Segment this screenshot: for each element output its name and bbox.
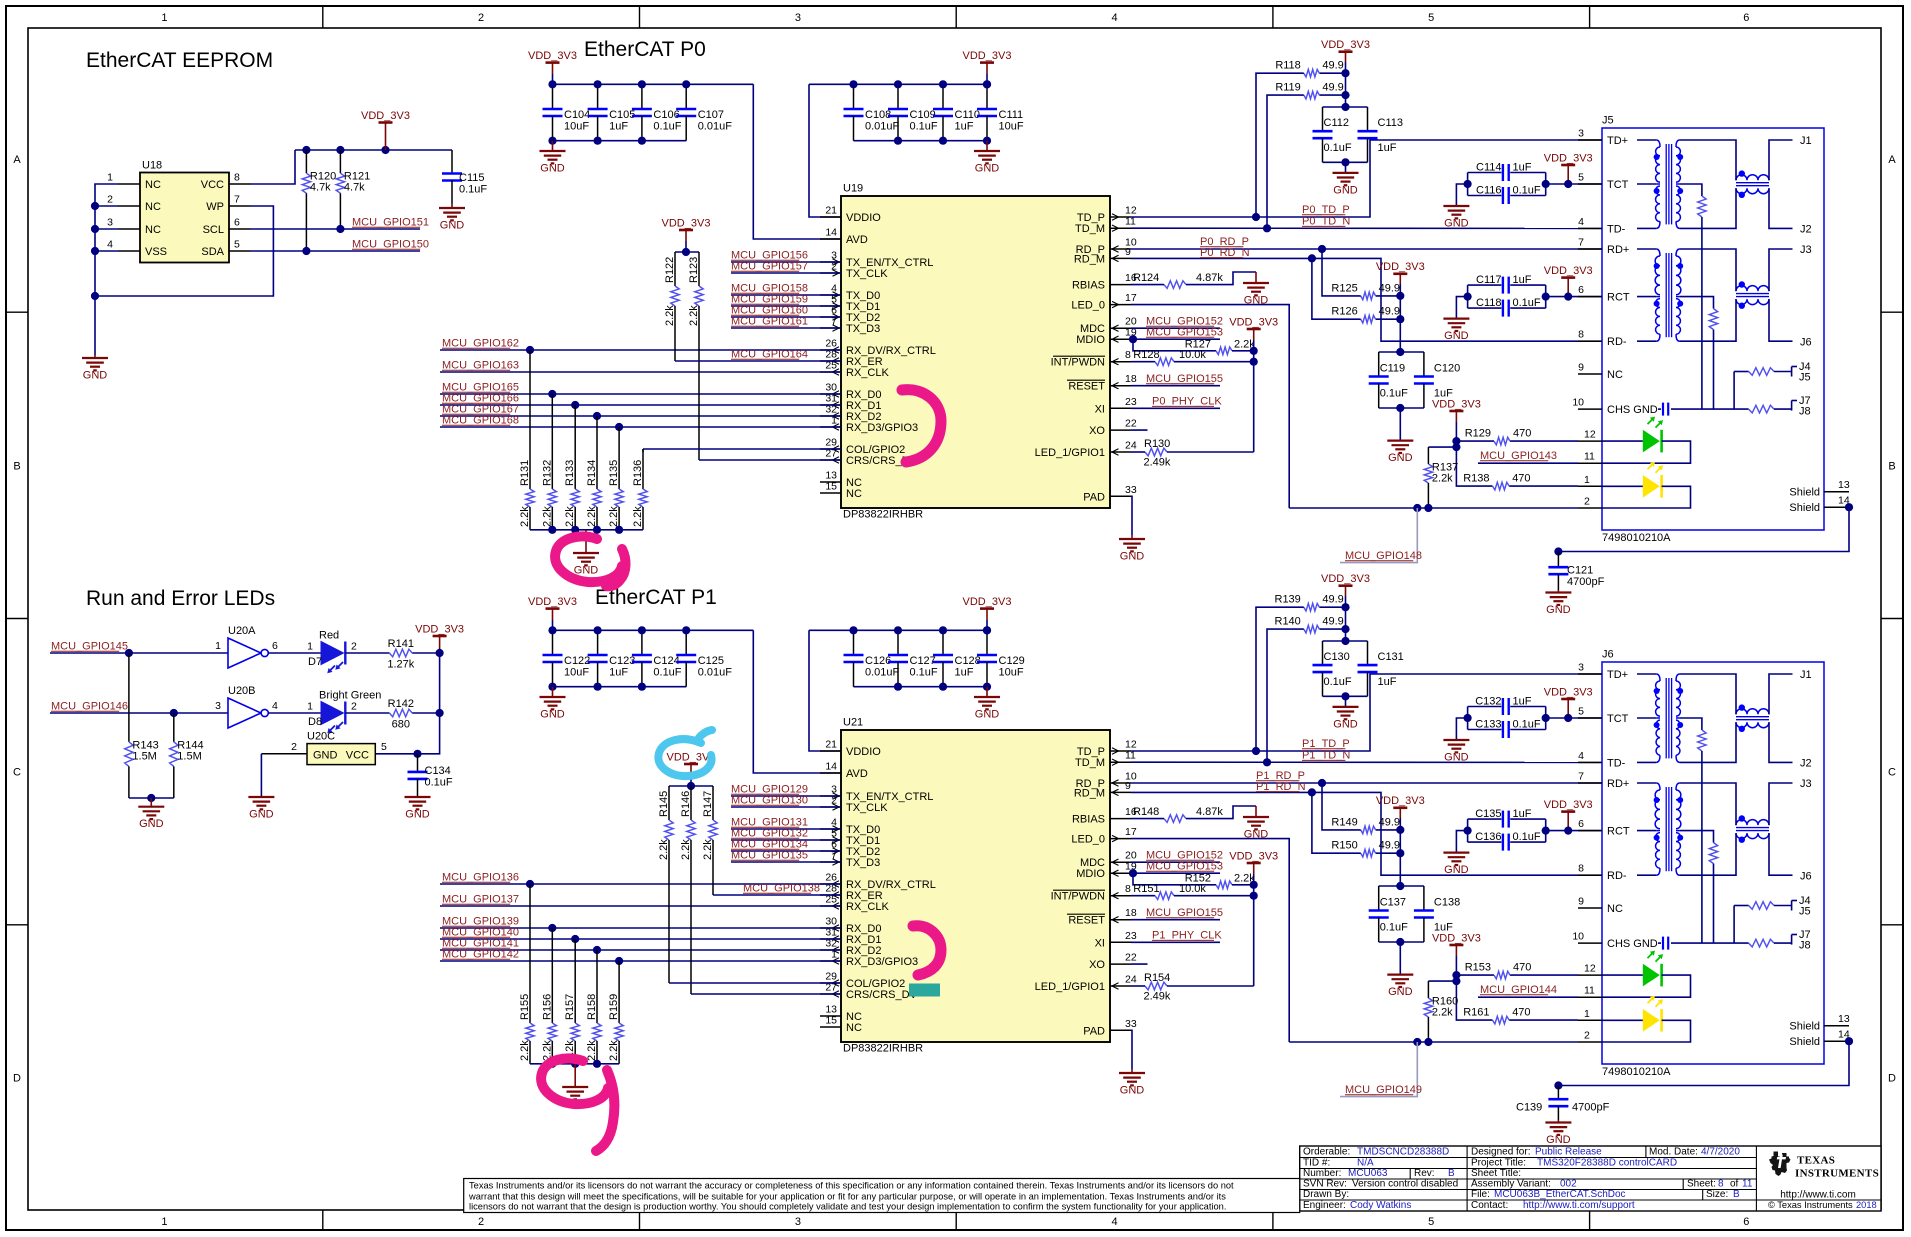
net label MCU_GPIO146 [51,701,128,713]
U18 pin 8 VCC stub [229,183,251,185]
svg-text:VSS: VSS [145,246,167,258]
svg-text:R124: R124 [1133,272,1159,284]
svg-text:49.9: 49.9 [1379,816,1400,828]
U21 pin 19 MDIO stub [1110,872,1131,874]
svg-text:GND: GND [1120,551,1145,563]
svg-text:VCC: VCC [346,749,369,761]
wire transformer J6 RX term down [1713,864,1715,944]
svg-text:6: 6 [1578,284,1584,296]
wire C137/C138 P1 gnd stem [1399,942,1401,975]
svg-text:R159: R159 [608,994,620,1020]
svg-text:GND: GND [83,370,108,382]
svg-text:470: 470 [1512,1007,1530,1019]
resistor R132 [541,394,556,530]
title block col line B [1755,1146,1757,1211]
wire transformer J5 RX out top [1769,249,1793,291]
junction C112/C113 P0 top [1341,103,1349,111]
svg-text:C118: C118 [1476,297,1501,309]
net label MCU_GPIO155 P0 [1146,373,1223,385]
junction C124 top [638,626,646,634]
PHY IC U19 body [841,196,1110,508]
junction TCT P0 left [1464,180,1472,188]
wire XI net P1 [1131,941,1220,943]
svg-text:C116: C116 [1476,184,1501,196]
svg-text:MCU_GPIO138: MCU_GPIO138 [743,883,820,895]
resistor R125 [1331,282,1400,299]
power VDD_3V3 RCT P1 [1544,799,1593,831]
wire J7 stub P1 [1792,934,1797,936]
svg-text:C120: C120 [1434,363,1460,375]
svg-text:P1_PHY_CLK: P1_PHY_CLK [1152,930,1222,942]
svg-text:0.1uF: 0.1uF [425,777,453,789]
resistor R156 [541,928,556,1064]
ground RBIAS P1 [1243,806,1269,841]
junction RD_M R126 P0 [1308,254,1316,262]
wire transformer J5 TX term down [1701,217,1703,409]
wire transformer J5 RX out bottom [1769,299,1793,341]
wire J5 internal seg [1637,340,1656,342]
U19 pin 29 COL/GPIO2 stub [820,448,841,450]
svg-text:4700pF: 4700pF [1567,576,1605,588]
resistor R148 [1164,815,1186,823]
wire RCT P0 loopR [1545,285,1547,308]
svg-text:R157: R157 [564,994,576,1020]
U19 pin RX_CLK arrow [833,369,840,375]
wire R127 out P1 [1232,884,1254,886]
svg-text:http://www.ti.com/support: http://www.ti.com/support [1523,1200,1635,1211]
junction C137/C138 P1 bottom [1396,938,1404,946]
resistor transformer J6 RX termination [1709,843,1717,864]
power VDD_3V3 MDIO P0 [1229,316,1278,340]
resistor R123 [688,252,703,460]
U19 pin LED_1/GPIO1 arrow [1112,449,1119,455]
svg-text:2.2k: 2.2k [608,506,620,527]
svg-text:10.0k: 10.0k [1179,883,1206,895]
wire MCU_GPIO161 net [731,327,841,329]
resistor transformer J5 TX termination [1698,196,1706,217]
svg-text:PAD: PAD [1083,1025,1105,1037]
svg-text:2.49k: 2.49k [1144,457,1171,469]
U19 pin 10 RD_P stub [1110,248,1131,250]
net label MCU_GPIO131 [731,817,808,829]
wire TCT P0 branch2 [1510,195,1546,197]
wire TCT P1 out [1546,717,1602,719]
svg-text:49.9: 49.9 [1322,82,1343,94]
svg-text:7498010210A: 7498010210A [1602,1066,1671,1078]
svg-text:12: 12 [1584,429,1596,441]
svg-text:MCU_GPIO135: MCU_GPIO135 [731,850,808,862]
svg-text:P1_TD_P: P1_TD_P [1302,738,1350,750]
svg-text:11: 11 [1584,451,1595,463]
svg-text:24: 24 [1125,974,1137,986]
wire J4J5 bracket P1 [1774,905,1792,907]
svg-text:AVD: AVD [846,234,868,246]
svg-text:1: 1 [307,641,313,653]
transformer J5 TX choke [1736,170,1769,198]
wire RD_M net P1 [1131,792,1602,875]
junction RCT P0 right [1542,293,1550,301]
svg-text:D8: D8 [308,716,322,728]
wire transformer J5 TX out bottom [1769,188,1793,228]
wire MCU_GPIO145 net [50,652,228,654]
svg-text:R161: R161 [1463,1007,1489,1019]
wire J5 internal seg [1637,227,1656,229]
resistor J4J5 P1 [1749,902,1774,910]
power VDD_3V3 R125 P1 [1376,795,1425,818]
capacitor C120 [1414,352,1434,408]
wire TD_P net P1 [1131,674,1602,751]
wire RCT P0 gnd jog [1456,297,1467,319]
svg-text:680: 680 [392,719,410,731]
svg-text:J2: J2 [1800,758,1812,770]
svg-text:Shield: Shield [1789,1021,1820,1033]
wire LED_1 net P0 [1131,451,1145,453]
U21 pin 26 RX_DV/RX_CTRL stub [820,883,841,885]
wire CRS net P0 [699,459,841,461]
wire pullup rail P1 [669,785,713,787]
svg-text:TX_D3: TX_D3 [846,857,880,869]
svg-text:LED_0: LED_0 [1071,300,1105,312]
U19 pin 15 NC stub [820,492,841,494]
junction R129 vdd P1 [1452,971,1460,979]
LED J5 yellow [1643,462,1663,498]
J6 pin 10 underline [1578,942,1602,944]
svg-text:VDD_3V3: VDD_3V3 [963,596,1012,608]
wire MCU_GPIO158 net [731,294,841,296]
junction C111 bottom [983,137,991,145]
svg-text:RCT: RCT [1607,292,1630,304]
U19 pin MDC arrow [1112,325,1119,331]
svg-text:C111: C111 [999,109,1024,121]
wire pullup stem P1 [690,775,692,786]
junction C123 bottom [594,683,602,691]
ground C119/C120 P0 [1387,441,1413,465]
svg-text:9: 9 [1125,246,1131,258]
capacitor C132 [1503,698,1509,715]
net label MCU_GPIO160 [731,305,808,317]
junction C121 P1 [1554,1081,1562,1089]
svg-text:MCU_GPIO151: MCU_GPIO151 [352,217,429,229]
U19 pin RESET arrow [1112,383,1119,389]
junction NC pin3 [91,225,99,233]
junction MCU_GPIO165 pulldown [548,390,556,398]
svg-text:TD+: TD+ [1607,135,1628,147]
resistor R146 [680,786,695,994]
resistor R139 [1275,594,1346,611]
wire XI net P0 [1131,407,1220,409]
disclaimer box [464,1179,1300,1213]
net label P0_TD_N [1302,216,1350,228]
svg-text:C135: C135 [1475,808,1501,820]
svg-text:18: 18 [1125,373,1137,385]
wire J6 internal seg tct [1637,830,1656,832]
wire RCT P1 branch2 [1510,841,1546,843]
wire CHS GND 2 P0 [1671,408,1749,410]
svg-text:4.87k: 4.87k [1196,272,1223,284]
svg-text:10uF: 10uF [564,121,589,133]
wire LED J5 green anode [1602,440,1643,442]
svg-text:VDDIO: VDDIO [846,746,881,758]
wire transformer J6 TX sec bottom [1680,722,1736,762]
wire TD_P net P0 [1131,140,1602,217]
svg-text:XI: XI [1095,937,1105,949]
junction RCT P1 right [1542,827,1550,835]
junction pulldown rail P1 [571,1060,579,1068]
wire RCT P1 loopL [1467,819,1469,842]
J5 pin 10 underline [1578,408,1602,410]
frame tick column 2 [639,6,641,1230]
svg-text:2.2k: 2.2k [564,506,576,527]
net label MCU_GPIO155 P1 [1146,907,1223,919]
svg-text:P0_TD_N: P0_TD_N [1302,216,1350,228]
U19 pin 18 RESET stub [1110,385,1131,387]
annotation pink hook P1 [913,926,941,975]
wire transformer J6 RX sec top [1680,783,1736,825]
svg-text:8: 8 [1578,329,1584,341]
svg-text:0.01uF: 0.01uF [698,121,733,133]
svg-text:14: 14 [825,227,837,239]
resistor R152 [1216,881,1232,889]
svg-text:MCU_GPIO149: MCU_GPIO149 [1345,1084,1422,1096]
wire MDIO net P0 [1131,338,1220,340]
wire RCT P0 branch2 [1510,307,1546,309]
resistor R126 [1331,306,1400,323]
svg-text:13: 13 [1838,479,1850,491]
svg-text:3: 3 [215,700,221,712]
svg-text:12: 12 [1125,739,1137,751]
svg-text:CHS GND: CHS GND [1607,938,1658,950]
junction C124 bottom [638,683,646,691]
junction RCT P1 vddd [1564,827,1572,835]
junction TCT P1 vddd [1564,714,1572,722]
junction RCT P1 left [1464,827,1472,835]
svg-text:RCT: RCT [1607,826,1630,838]
wire R128 out P1 [1174,895,1254,897]
wire R128 out P0 [1174,361,1254,363]
wire transformer J6 TX out bottom [1769,722,1793,762]
transformer J6 TX [1654,674,1684,762]
svg-text:TMDSCNCD28388D: TMDSCNCD28388D [1357,1147,1449,1158]
svg-text:1.5M: 1.5M [132,750,156,762]
svg-text:3: 3 [795,1216,801,1228]
wire INT net P1 [1131,895,1155,897]
resistor R137 [1424,447,1458,508]
wire C115 top [451,149,453,151]
svg-text:0.1uF: 0.1uF [1513,184,1541,196]
wire TCT P1 loopL [1467,707,1469,730]
U21 pin RX_D1 arrow [833,936,840,942]
U21 pin 17 LED_0 stub [1110,838,1131,840]
capacitor CHS P1 [1663,937,1668,950]
svg-text:49.9: 49.9 [1379,306,1400,318]
svg-text:RD+: RD+ [1607,244,1629,256]
svg-text:VDD_3V3: VDD_3V3 [963,50,1012,62]
svg-text:MCU_GPIO142: MCU_GPIO142 [442,949,519,961]
wire MCU_GPIO135 net [731,861,841,863]
svg-text:470: 470 [1512,473,1530,485]
capacitor C116 [1503,187,1509,204]
wire LED J6 yellow anode [1602,1019,1643,1021]
U21 pin LED_0 arrow [1112,835,1119,841]
U19 pin 3 TX_EN/TX_CTRL stub [820,261,841,263]
junction capbank2 left [849,626,857,634]
resistor J7J8 P0 [1749,405,1774,413]
svg-text:D: D [1888,1072,1896,1084]
wire MDC net P0 [1131,327,1220,329]
svg-text:C133: C133 [1475,718,1501,730]
svg-text:C137: C137 [1380,897,1406,909]
U21 pin TX_D1 arrow [833,837,840,843]
U19 pin 31 RX_D1 stub [820,404,841,406]
junction capbank1 vdd P1 [548,626,556,634]
svg-text:4: 4 [1112,12,1118,24]
svg-text:R128: R128 [1133,349,1159,361]
wire MCU_GPIO144 net [1478,996,1578,998]
svg-text:1uF: 1uF [609,667,628,679]
svg-text:2.2k: 2.2k [1432,1007,1453,1019]
junction C129 bottom [983,683,991,691]
svg-text:VDD_3V3: VDD_3V3 [1229,850,1278,862]
svg-text:Contact:: Contact: [1471,1200,1508,1211]
svg-text:MCU_GPIO155: MCU_GPIO155 [1146,373,1223,385]
capacitor C115 [442,150,487,204]
junction R120 top [302,146,310,154]
svg-text:J1: J1 [1800,669,1812,681]
svg-text:C132: C132 [1475,695,1501,707]
wire RBIAS gnd P0 [1186,272,1256,285]
junction gray net P1 [1413,1038,1421,1046]
title block sub size [1702,1190,1704,1201]
wire R137 top P1 [1428,980,1456,982]
U19 pin 21 VDDIO stub [820,216,841,218]
U19 pin TX_EN/TX_CTRL arrow [833,259,840,265]
svg-text:23: 23 [1125,930,1137,942]
svg-text:VDD_3V3: VDD_3V3 [1376,795,1425,807]
power VDD_3V3 capbank1 P1 [528,596,577,620]
junction C128 bottom [939,683,947,691]
net label MCU_GPIO138 [743,883,820,895]
svg-text:NC: NC [846,1022,862,1034]
wire TCT P1 loopR [1545,707,1547,730]
svg-text:GND: GND [975,163,1000,175]
svg-text:R138: R138 [1463,473,1489,485]
svg-text:4.87k: 4.87k [1196,806,1223,818]
svg-text:INT/PWDN: INT/PWDN [1051,357,1105,369]
U18 pin 5 SDA stub [229,250,251,252]
svg-text:J6: J6 [1602,649,1614,661]
wire J7J8 bracket v P1 [1791,935,1793,945]
resistor R129 [1456,428,1578,445]
U19 pin 8 INT/PWDN stub [1110,361,1131,363]
J6 pin 12 stub [1578,974,1602,976]
svg-text:TX_D3: TX_D3 [846,323,880,335]
net label MCU_GPIO135 [731,850,808,862]
junction R125 vdd P0 [1396,292,1404,300]
wire MCU_GPIO129 net [731,795,841,797]
IC U20C body [307,744,375,765]
ground C137/C138 P1 [1387,975,1413,999]
annotation teal highlight COL/GPIO2 [909,984,940,997]
title block col line A [1466,1146,1468,1211]
junction R126 vdd P0 [1396,315,1404,323]
svg-text:C134: C134 [425,765,451,777]
ground C115 [439,204,465,232]
ground C121 P0 [1545,590,1571,616]
svg-text:2: 2 [1584,496,1590,508]
frame tick column 5 [1589,6,1591,1230]
net label MCU_GPIO130 [731,795,808,807]
svg-text:7: 7 [1578,237,1584,249]
junction C105 top [594,80,602,88]
svg-text:U19: U19 [843,183,863,195]
svg-text:EtherCAT P0: EtherCAT P0 [584,38,706,61]
svg-text:2: 2 [1584,1030,1590,1042]
J6 pin 1 stub [1578,1019,1602,1021]
junction MCU_GPIO141 pulldown [593,946,601,954]
junction MDIO R127 P0 [1129,335,1137,343]
ground C134 [405,797,431,821]
wire TCT P1 branch2 [1510,729,1546,731]
J6 pin 9 underline [1578,907,1602,909]
wire MDC net P1 [1131,861,1220,863]
capacitor C113 [1358,107,1378,162]
ground TCT P0 [1443,206,1469,230]
junction pulldown rail P0 [548,526,556,534]
capacitor C137 [1369,886,1389,942]
svg-text:21: 21 [825,205,837,217]
svg-text:VDD_3V3: VDD_3V3 [1432,398,1481,410]
svg-text:5: 5 [234,239,240,251]
svg-text:MCU_GPIO143: MCU_GPIO143 [1480,450,1557,462]
capacitor C134 [408,754,453,797]
capacitor C128 [933,630,981,686]
svg-text:2.2k: 2.2k [519,1040,531,1061]
U21 pin 1 RX_D3/GPIO3 stub [820,960,841,962]
wire TCT P0 branch [1468,195,1502,197]
wire MDIO R127 riser P1 [1133,873,1216,885]
resistor R124 [1164,281,1186,289]
svg-text:21: 21 [825,739,837,751]
svg-text:2.2k: 2.2k [1432,473,1453,485]
svg-text:Run and Error LEDs: Run and Error LEDs [86,587,275,610]
J6 pin 11 stub [1578,996,1602,998]
U19 pin 14 AVD stub [820,238,841,240]
svg-text:P1_RD_N: P1_RD_N [1256,781,1306,793]
svg-text:RBIAS: RBIAS [1072,814,1105,826]
wire VDDIO riser P0 [809,84,841,217]
net label MCU_GPIO148 [1345,550,1422,562]
wire TD_M net P1 [1131,761,1602,763]
svg-text:XI: XI [1095,403,1105,415]
wire MCU_GPIO156 net [731,261,841,263]
wire pulldown rail P1 [530,1063,619,1065]
wire C119/C120 P0 top rail [1379,351,1424,353]
wire MCU_GPIO167 net [440,415,841,417]
resistor R138 [1463,473,1578,490]
svg-text:J8: J8 [1799,406,1811,418]
resistor R118 [1275,60,1345,77]
U21 pin 29 COL/GPIO2 stub [820,982,841,984]
title block sub moddate [1645,1146,1647,1158]
U19 pin 23 XI stub [1110,407,1131,409]
ground capbank2 P0 [974,141,1000,175]
svg-text:1: 1 [1584,1008,1590,1020]
svg-text:D: D [13,1072,21,1084]
svg-text:1uF: 1uF [1378,676,1397,688]
svg-text:WP: WP [206,201,224,213]
ground capbank1 P0 [540,141,566,175]
svg-text:GND: GND [1546,604,1571,616]
